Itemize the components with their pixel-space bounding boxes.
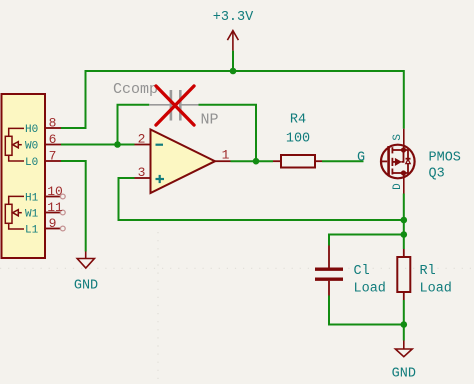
svg-text:8: 8	[49, 116, 57, 131]
svg-text:2: 2	[138, 132, 146, 147]
svg-text:9: 9	[49, 216, 57, 231]
svg-text:Load: Load	[354, 282, 386, 297]
svg-text:PMOS: PMOS	[429, 151, 461, 166]
svg-text:7: 7	[49, 149, 57, 164]
svg-text:D: D	[392, 183, 404, 190]
svg-text:H0: H0	[25, 124, 38, 136]
svg-text:100: 100	[286, 132, 310, 147]
svg-text:NP: NP	[201, 112, 219, 129]
svg-text:+3.3V: +3.3V	[213, 10, 254, 25]
svg-text:1: 1	[222, 148, 230, 163]
svg-text:10: 10	[47, 184, 63, 199]
svg-text:L0: L0	[25, 157, 38, 169]
svg-text:R4: R4	[290, 113, 306, 128]
svg-text:Rl: Rl	[420, 264, 436, 279]
svg-text:H1: H1	[25, 193, 39, 205]
svg-text:L1: L1	[25, 225, 39, 237]
svg-text:GND: GND	[392, 367, 416, 382]
svg-text:G: G	[357, 151, 365, 166]
svg-text:S: S	[392, 134, 404, 141]
svg-text:Load: Load	[420, 282, 452, 297]
svg-text:GND: GND	[74, 279, 98, 294]
svg-text:W1: W1	[25, 209, 39, 221]
svg-text:3: 3	[138, 165, 146, 180]
svg-text:W0: W0	[25, 141, 38, 153]
svg-text:11: 11	[47, 200, 63, 215]
svg-text:Ccomp: Ccomp	[113, 81, 158, 98]
svg-text:Q3: Q3	[429, 167, 445, 182]
svg-text:Cl: Cl	[354, 264, 370, 279]
svg-text:6: 6	[49, 132, 57, 147]
